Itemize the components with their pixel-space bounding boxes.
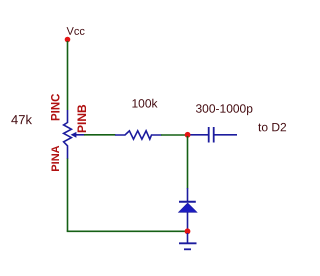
potentiometer R? 47k body (vertical zigzag): [64, 110, 72, 159]
svg-text:Vcc: Vcc: [66, 26, 85, 38]
svg-text:to D2: to D2: [258, 120, 287, 134]
node ground junction (red dot): [185, 228, 191, 234]
node junction resistor/capacitor (red dot): [185, 132, 191, 138]
wire wiper to resistor: [84, 134, 116, 136]
svg-text:PINC: PINC: [51, 94, 63, 121]
wire pot bottom down: [67, 159, 69, 232]
node Vcc (red junction dot): [65, 37, 71, 43]
svg-text:300-1000p: 300-1000p: [195, 102, 253, 116]
wire resistor to junction: [161, 134, 188, 136]
ground symbol: [187, 233, 189, 243]
svg-text:PINB: PINB: [75, 104, 89, 133]
capacitor C? 300-1000p: [189, 134, 208, 136]
diode D? (cathode up): [187, 188, 189, 202]
wire junction down to diode: [187, 136, 189, 189]
wire Vcc to potentiometer top: [67, 41, 69, 110]
wire bottom horizontal to ground node: [67, 230, 188, 232]
svg-text:100k: 100k: [131, 97, 158, 111]
potentiometer wiper arrow: [71, 132, 77, 138]
svg-text:47k: 47k: [11, 112, 32, 127]
svg-text:PINA: PINA: [50, 145, 62, 171]
resistor R? 100k (horizontal zigzag with leads): [115, 131, 162, 139]
